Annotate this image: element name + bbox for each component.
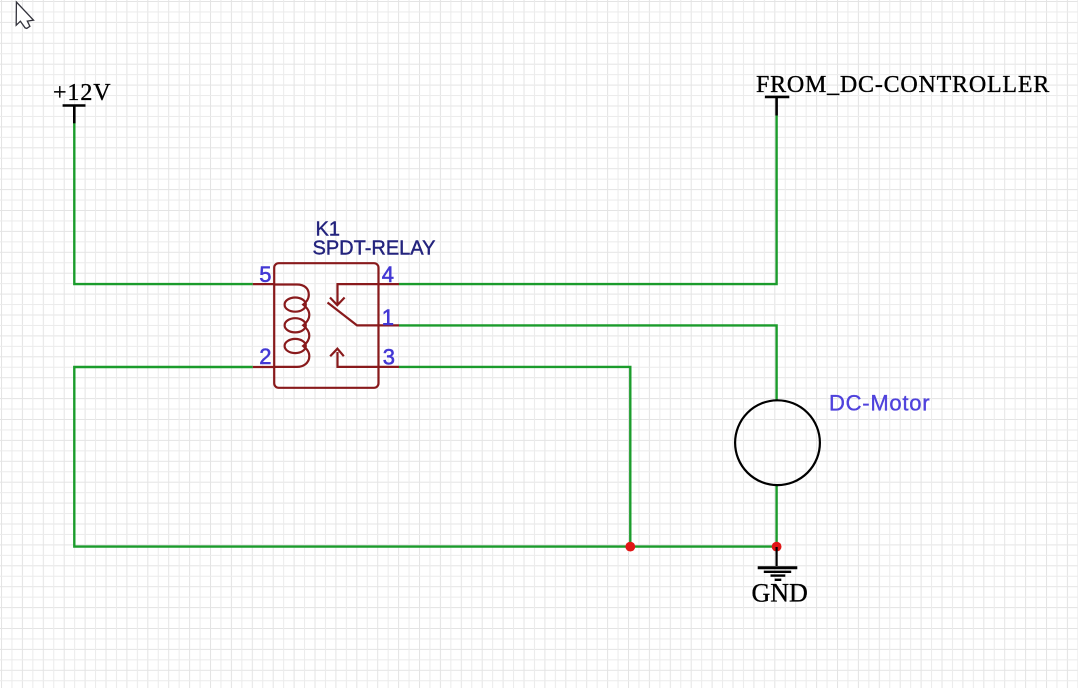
svg-text:GND: GND — [752, 579, 808, 608]
svg-text:5: 5 — [259, 262, 271, 287]
svg-text:2: 2 — [259, 344, 271, 369]
svg-text:3: 3 — [383, 344, 395, 369]
svg-text:SPDT-RELAY: SPDT-RELAY — [313, 238, 436, 260]
svg-text:4: 4 — [382, 262, 394, 287]
svg-text:DC-Motor: DC-Motor — [829, 391, 930, 416]
svg-text:FROM_DC-CONTROLLER: FROM_DC-CONTROLLER — [756, 72, 1050, 98]
svg-text:1: 1 — [382, 305, 394, 330]
svg-text:+12V: +12V — [53, 80, 111, 106]
